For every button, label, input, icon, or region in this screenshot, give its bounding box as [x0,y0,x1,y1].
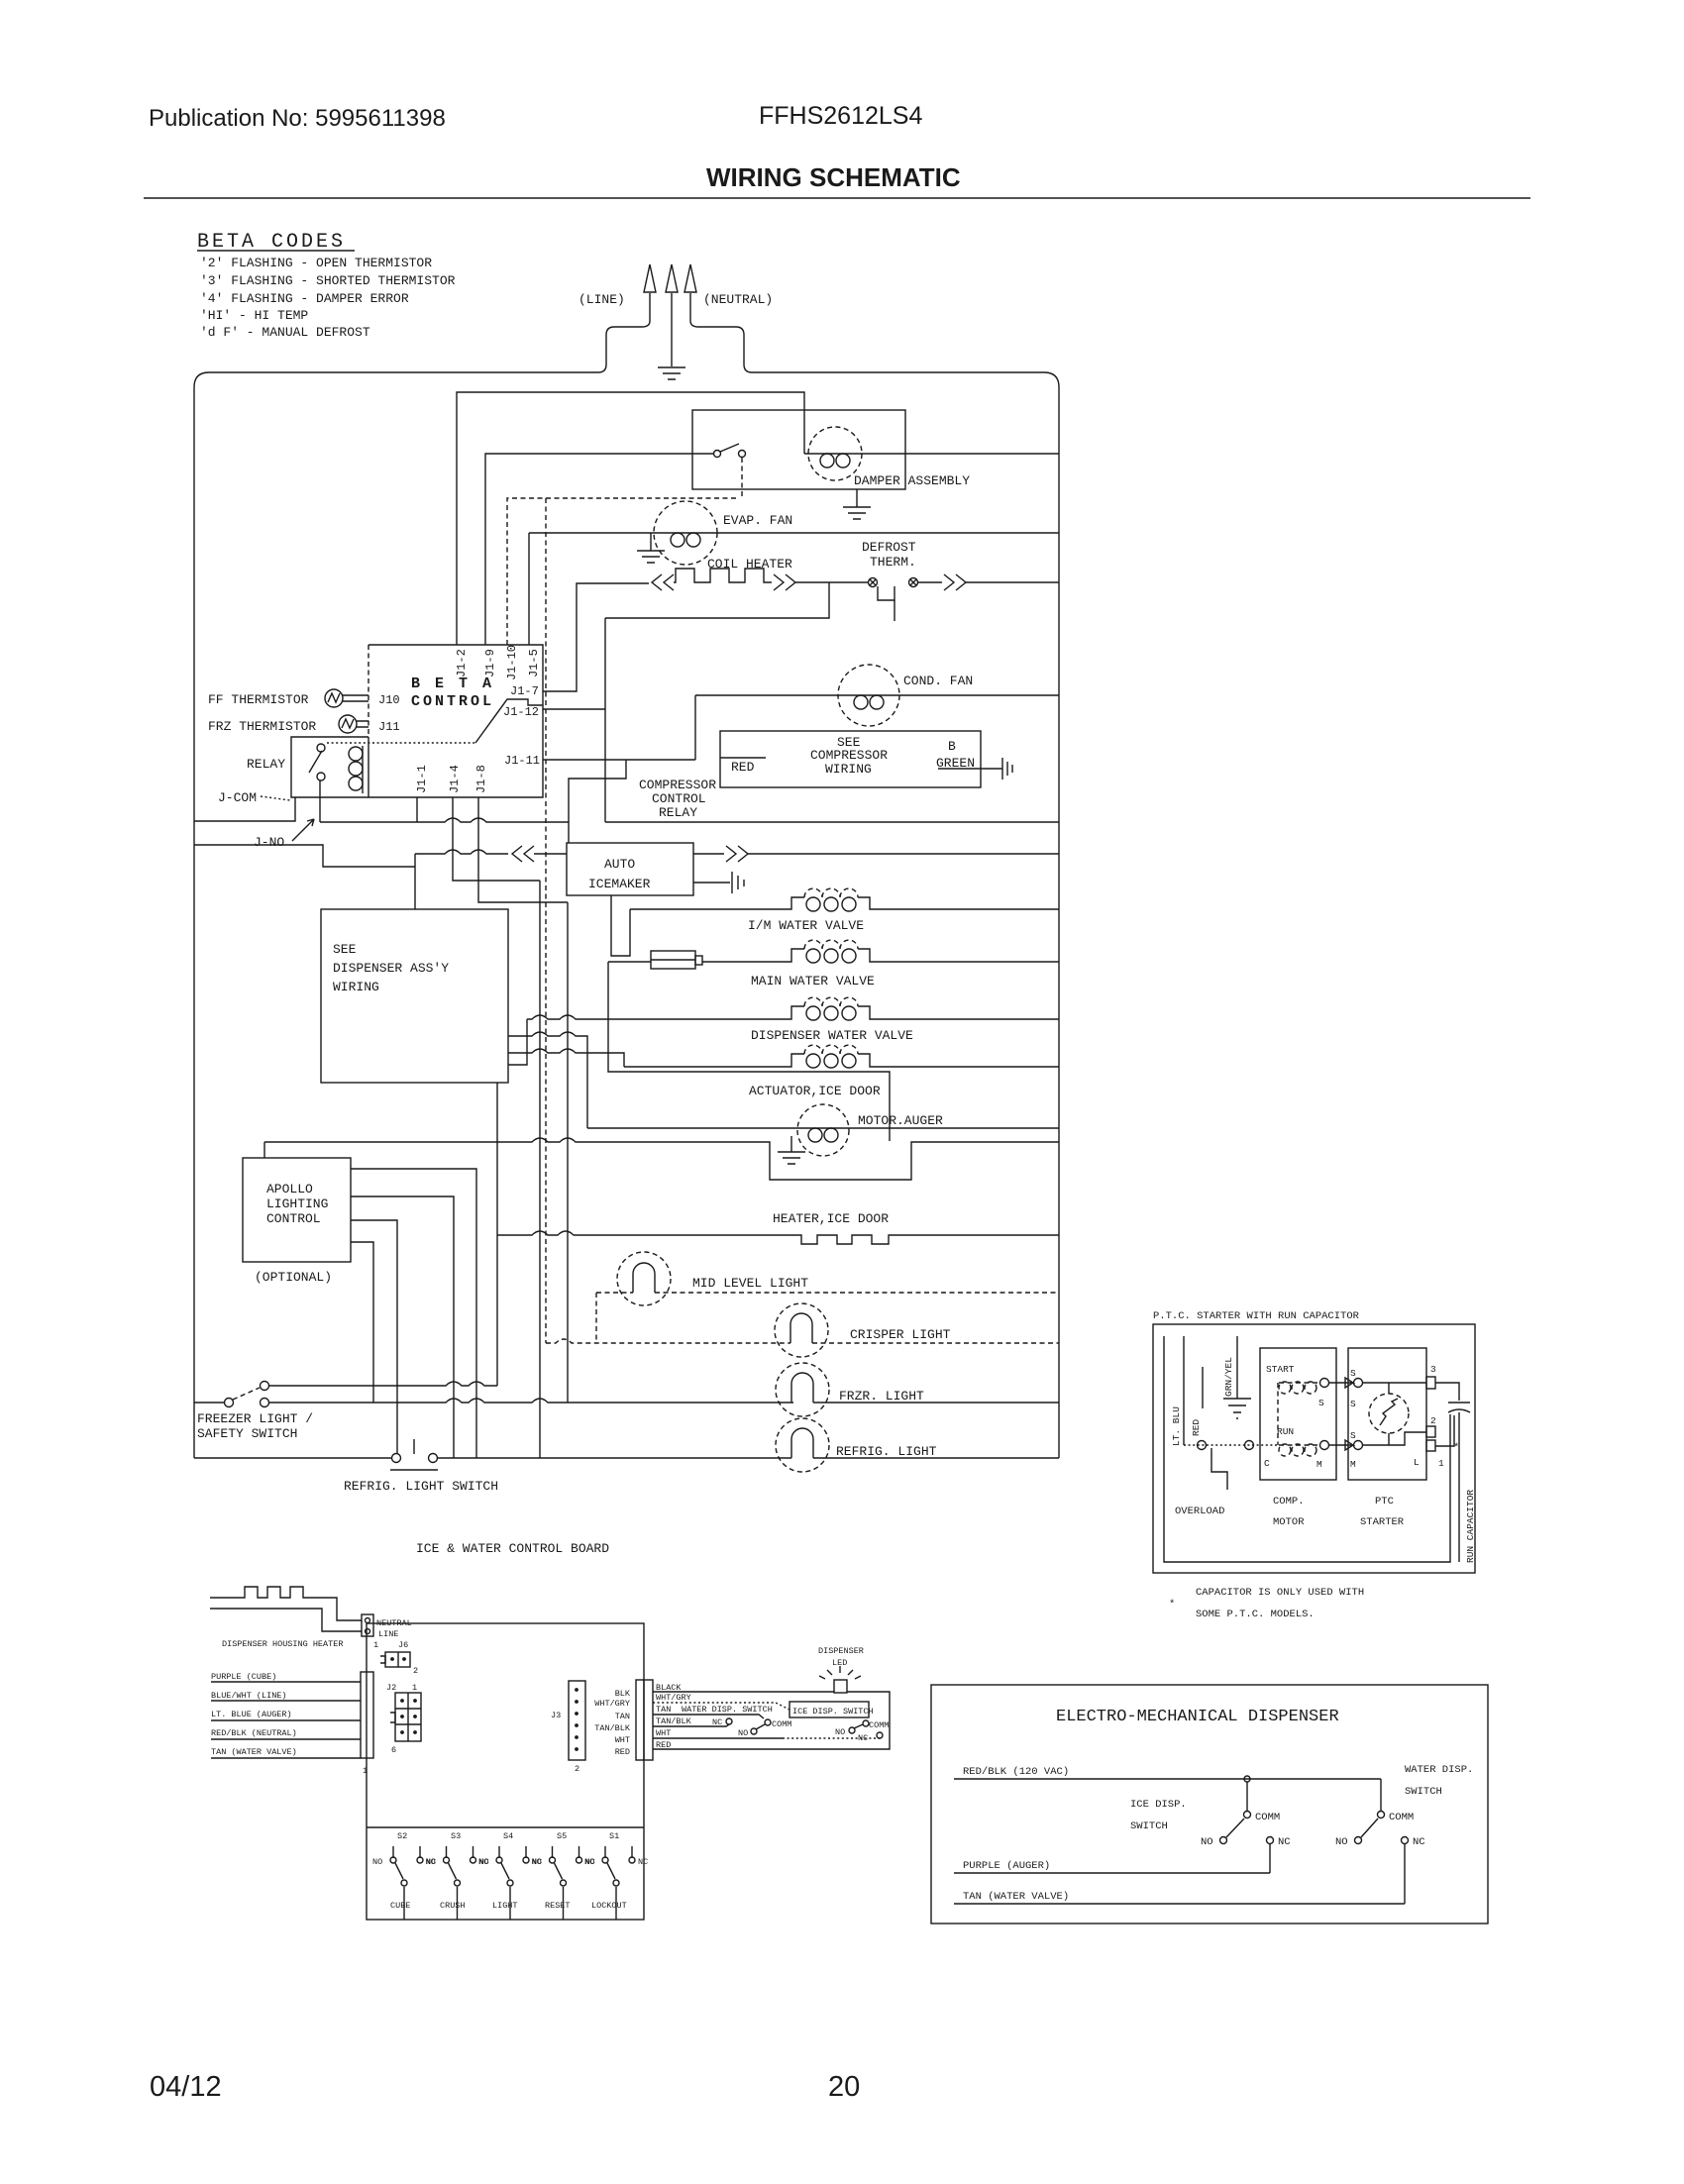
apollo pin 3 wire [351,1220,397,1453]
svg-text:NC: NC [1413,1836,1425,1848]
evap fan circle [654,501,717,565]
svg-text:'HI' - HI TEMP: 'HI' - HI TEMP [200,308,308,323]
svg-text:J1-9: J1-9 [483,649,497,677]
svg-text:1: 1 [373,1640,378,1650]
svg-text:SWITCH: SWITCH [1405,1786,1442,1798]
control board box [367,1623,644,1920]
svg-text:PURPLE (AUGER): PURPLE (AUGER) [963,1860,1050,1872]
svg-text:RUN: RUN [1277,1426,1294,1437]
switch RESET [553,1846,579,1858]
dashed mid level light branch [595,1293,597,1343]
arrows right of coil heater [774,574,795,590]
arrows left of coil heater [652,574,674,590]
svg-text:J1-8: J1-8 [474,765,488,793]
plug prong LINE [598,293,650,372]
svg-text:S: S [1318,1398,1324,1408]
apollo lighting control box [243,1158,351,1262]
arrows right of defrost therm [944,574,966,590]
svg-text:SOME P.T.C. MODELS.: SOME P.T.C. MODELS. [1196,1609,1315,1620]
svg-text:NO: NO [426,1857,436,1867]
svg-text:WHT/GRY: WHT/GRY [656,1693,691,1703]
svg-text:J-COM: J-COM [218,790,257,805]
neutral bus to right edge [605,821,1059,823]
wire freezer upper contact to x502 [269,1382,497,1386]
svg-text:J6: J6 [398,1640,408,1650]
svg-text:LIGHT: LIGHT [492,1901,518,1911]
vertical bus x573 [567,902,569,1403]
vertical from dispenser box to freezer upper wire [496,1083,498,1386]
svg-text:TAN: TAN [615,1712,630,1721]
ground GRN/YEL [1223,1399,1251,1418]
wire RED/BLK [954,1778,1381,1780]
switch CUBE [393,1846,420,1858]
ice disp switch box [789,1702,869,1717]
pin 2 [1426,1426,1435,1437]
svg-text:WHT: WHT [615,1735,630,1745]
svg-text:CONTROL: CONTROL [652,791,706,806]
svg-text:RUN CAPACITOR: RUN CAPACITOR [1465,1490,1476,1563]
PTC starter box [1348,1348,1426,1480]
svg-text:'4' FLASHING - DAMPER ERROR: '4' FLASHING - DAMPER ERROR [200,291,409,306]
svg-text:MOTOR.AUGER: MOTOR.AUGER [858,1113,943,1128]
svg-text:RED/BLK (120 VAC): RED/BLK (120 VAC) [963,1766,1069,1778]
svg-text:CAPACITOR IS ONLY USED WITH: CAPACITOR IS ONLY USED WITH [1196,1587,1364,1599]
svg-text:BLUE/WHT (LINE): BLUE/WHT (LINE) [211,1691,287,1701]
svg-text:PTC: PTC [1375,1496,1394,1508]
icemaker ground stub [693,882,730,884]
svg-text:ACTUATOR,ICE DOOR: ACTUATOR,ICE DOOR [749,1084,881,1098]
svg-text:THERM.: THERM. [870,555,916,570]
svg-text:1: 1 [363,1766,368,1776]
svg-text:NO: NO [584,1857,594,1867]
dispenser LED [834,1680,847,1693]
wire stub [1202,1367,1204,1408]
svg-text:LOCKOUT: LOCKOUT [591,1901,627,1911]
svg-text:WHT/GRY: WHT/GRY [594,1699,630,1709]
vertical bus x545 [539,881,541,1458]
ice disp switch emd [1246,1782,1248,1811]
ground at compressor green [1002,758,1012,780]
svg-text:BLK: BLK [615,1689,631,1699]
svg-text:J1-1: J1-1 [415,765,429,793]
svg-text:NC: NC [638,1857,648,1867]
wire J1-1 stub [416,797,418,822]
svg-text:WHT: WHT [656,1728,671,1738]
svg-text:S4: S4 [503,1831,513,1841]
svg-text:COMPRESSOR: COMPRESSOR [639,778,716,792]
svg-text:WATER DISP.: WATER DISP. [1405,1764,1473,1776]
PTC thermistor [1369,1394,1409,1433]
overload step symbol [1211,1448,1227,1490]
svg-text:Publication No: 5995611398: Publication No: 5995611398 [149,105,446,132]
wire auger return with dip [264,1138,1059,1180]
svg-text:M: M [1316,1459,1322,1470]
svg-text:RED: RED [615,1747,630,1757]
apollo pin 1 wire [351,1169,476,1458]
svg-text:J3: J3 [551,1711,561,1720]
dispenser housing heater [210,1587,362,1620]
comp motor box [1260,1348,1336,1480]
wire icemaker feed [415,850,508,854]
wire RED [1183,1336,1185,1445]
svg-text:RED: RED [656,1740,671,1750]
wire J1-7 to coil heater [543,583,649,691]
svg-text:M: M [1350,1459,1356,1470]
wire GRN/YEL [1236,1336,1238,1399]
wire line-feed from left edge to dispenser box [194,845,415,909]
water disp switch emd [1380,1779,1382,1811]
ground below auger motor [778,1136,805,1164]
svg-text:S: S [1350,1430,1356,1441]
svg-text:NEUTRAL: NEUTRAL [376,1618,412,1628]
ground below evap fan [637,533,665,563]
wire LT. BLU [1164,1336,1450,1562]
wire PURPLE [954,1872,1270,1874]
freezer light safety switch [225,1399,234,1407]
wire I/M water valve line [630,897,804,909]
svg-text:APOLLO: APOLLO [266,1182,313,1196]
neutral line connector [362,1614,373,1636]
svg-text:FREEZER LIGHT /: FREEZER LIGHT / [197,1411,313,1426]
actuator coil [804,1045,858,1054]
svg-text:NO: NO [372,1857,382,1867]
svg-text:J2: J2 [386,1683,396,1693]
svg-text:COND. FAN: COND. FAN [903,674,973,688]
svg-text:WIRING: WIRING [333,980,379,994]
crisper light lamp [775,1303,828,1357]
switch LOCKOUT [605,1846,632,1858]
svg-text:ICEMAKER: ICEMAKER [588,877,651,891]
svg-text:S2: S2 [397,1831,407,1841]
start winding [1279,1382,1291,1394]
switch CRUSH [447,1846,474,1858]
defrost thermostat contacts [869,578,878,587]
svg-text:EVAP. FAN: EVAP. FAN [723,513,792,528]
I/M water valve coil [804,888,858,897]
svg-text:CUBE: CUBE [390,1901,410,1911]
svg-text:S3: S3 [451,1831,461,1841]
svg-text:TAN/BLK: TAN/BLK [594,1723,631,1733]
wire J1-4 bus [453,797,540,881]
wire main water valve feed [608,961,651,963]
svg-text:SAFETY SWITCH: SAFETY SWITCH [197,1426,297,1441]
svg-text:RELAY: RELAY [659,805,697,820]
svg-text:COMM: COMM [1255,1812,1280,1823]
svg-text:*: * [1453,1442,1459,1454]
outer boundary left and top [194,372,598,1458]
svg-text:J1-10: J1-10 [505,645,519,680]
svg-text:1: 1 [1438,1458,1444,1469]
svg-text:I/M WATER VALVE: I/M WATER VALVE [748,918,864,933]
apollo pin 4 wire [351,1242,373,1403]
wire return via 1082 [608,962,890,1141]
svg-text:3: 3 [1430,1364,1436,1375]
svg-text:ICE DISP. SWITCH: ICE DISP. SWITCH [792,1707,874,1716]
dispenser box pin to dispenser water valve [508,1019,527,1065]
auto icemaker box [567,843,693,895]
svg-text:START: START [1266,1364,1295,1375]
wire J1-10 dashed bus [507,498,739,645]
wire J1-5 bus to evap fan line [528,533,530,645]
svg-text:COMM: COMM [772,1719,791,1729]
svg-text:AUTO: AUTO [604,857,635,872]
wire actuator ice door [624,1054,804,1067]
svg-text:MAIN WATER VALVE: MAIN WATER VALVE [751,974,875,988]
svg-text:DISPENSER ASS'Y: DISPENSER ASS'Y [333,961,449,976]
wire heater ice door [497,1231,1059,1244]
svg-text:2: 2 [1430,1415,1436,1426]
damper coil [808,427,862,480]
svg-text:WIRING SCHEMATIC: WIRING SCHEMATIC [706,162,961,192]
see dispenser assy wiring box [321,909,508,1083]
svg-text:TAN: TAN [656,1705,671,1715]
bottom boundary left segment [194,1457,392,1459]
svg-text:COMM: COMM [869,1720,889,1730]
wire RED stub [720,757,766,759]
svg-text:NO: NO [478,1857,488,1867]
svg-text:6: 6 [391,1745,396,1755]
svg-text:RELAY: RELAY [247,757,285,772]
wire J-COM to left edge [194,797,295,821]
svg-text:OVERLOAD: OVERLOAD [1175,1506,1224,1517]
wire J-NO drop [319,780,321,822]
run capacitor [1435,1383,1459,1401]
beta box notch [475,699,543,743]
svg-text:C: C [1264,1458,1270,1469]
svg-text:SEE: SEE [333,942,357,957]
frzr light lamp [776,1363,829,1416]
defrost thermostat jog [878,586,895,600]
svg-text:MID LEVEL LIGHT: MID LEVEL LIGHT [692,1276,808,1291]
ground at plug [658,367,685,379]
electro-mechanical dispenser box [931,1685,1488,1924]
switch LIGHT [499,1846,526,1858]
main water valve coil [804,940,858,949]
svg-text:FRZ THERMISTOR: FRZ THERMISTOR [208,719,316,734]
svg-text:'d F' - MANUAL DEFROST: 'd F' - MANUAL DEFROST [200,325,370,340]
svg-text:NO: NO [1335,1836,1348,1848]
left connector bar [361,1672,373,1758]
svg-text:REFRIG. LIGHT: REFRIG. LIGHT [836,1444,937,1459]
svg-text:GRN/YEL: GRN/YEL [1223,1357,1234,1397]
svg-text:B: B [948,739,956,754]
svg-text:DEFROST: DEFROST [862,540,916,555]
svg-text:L: L [1414,1457,1420,1468]
outer boundary right and top [752,372,1059,1458]
svg-text:NO: NO [835,1727,845,1737]
svg-text:S: S [1350,1368,1356,1379]
svg-text:ELECTRO-MECHANICAL DISPENSER: ELECTRO-MECHANICAL DISPENSER [1056,1708,1339,1726]
svg-text:2: 2 [413,1666,418,1676]
coil heater element [674,569,772,582]
svg-text:STARTER: STARTER [1360,1516,1405,1528]
wire J1-9 bus to damper switch [485,454,713,645]
plug prong center [671,293,673,366]
svg-text:J10: J10 [378,693,400,707]
dispenser box pin to auger motor [508,1032,587,1128]
apollo top wire [263,1142,265,1158]
svg-text:J1-4: J1-4 [448,765,462,793]
svg-text:NC: NC [1278,1836,1291,1848]
wire frzr light line [269,1399,793,1403]
water disp switch [726,1718,732,1724]
svg-text:2: 2 [575,1764,579,1774]
arrows right of icemaker [693,853,724,855]
svg-text:COIL HEATER: COIL HEATER [707,557,792,572]
svg-text:COMPRESSOR: COMPRESSOR [810,748,888,763]
thermal fuse [651,951,695,969]
svg-text:J-NO: J-NO [254,835,284,850]
wire J1-12 to coil heater return [543,708,605,710]
svg-text:PURPLE (CUBE): PURPLE (CUBE) [211,1672,276,1682]
right connector bar [636,1680,653,1760]
svg-text:CONTROL: CONTROL [411,693,494,710]
cond fan circle [838,665,899,726]
svg-text:04/12: 04/12 [150,2071,222,2103]
svg-text:20: 20 [828,2071,860,2103]
mid level light lamp [617,1252,671,1305]
damper switch [714,451,721,458]
overload dashed run wire [1184,1444,1278,1446]
refrig light switch [392,1454,401,1463]
svg-text:COMP.: COMP. [1273,1496,1305,1508]
svg-text:CRISPER LIGHT: CRISPER LIGHT [850,1327,951,1342]
wire J1-1 / line bus to icemaker top [320,818,569,843]
svg-text:RED: RED [731,760,755,775]
svg-text:J1-11: J1-11 [504,754,540,768]
damper assembly box [692,410,905,489]
svg-text:J1-5: J1-5 [527,649,541,677]
svg-text:TAN (WATER VALVE): TAN (WATER VALVE) [211,1747,297,1757]
svg-text:FRZR. LIGHT: FRZR. LIGHT [839,1389,924,1404]
svg-text:NO: NO [532,1857,542,1867]
PTC inset outer box [1153,1324,1475,1573]
svg-text:S5: S5 [557,1831,567,1841]
svg-text:TAN/BLK: TAN/BLK [656,1716,692,1726]
svg-text:J1-7: J1-7 [510,684,539,698]
wire J1-8 bus [478,797,568,902]
wire S to PTC [1329,1378,1353,1388]
run winding [1279,1444,1291,1456]
svg-text:REFRIG. LIGHT SWITCH: REFRIG. LIGHT SWITCH [344,1479,498,1494]
apollo pin 2 wire [351,1196,454,1458]
dispenser water valve coil [804,997,858,1006]
svg-text:'3' FLASHING - SHORTED THERMIS: '3' FLASHING - SHORTED THERMISTOR [200,273,456,288]
wire compressor control relay [569,760,626,822]
svg-text:WIRING: WIRING [825,762,872,777]
svg-text:1: 1 [412,1683,417,1693]
icemaker pin to I/M valve line [611,895,630,956]
svg-text:WATER DISP. SWITCH: WATER DISP. SWITCH [682,1705,773,1715]
svg-text:TAN (WATER VALVE): TAN (WATER VALVE) [963,1891,1069,1903]
auger motor circle [797,1104,849,1156]
svg-text:LIGHTING: LIGHTING [266,1196,328,1211]
BETA CONTROL box [291,645,543,797]
svg-text:FFHS2612LS4: FFHS2612LS4 [759,102,922,130]
board divider [367,1826,644,1828]
arrows icemaker left [512,846,534,862]
ground below damper box [843,489,871,519]
svg-text:LT. BLU: LT. BLU [1171,1406,1182,1446]
svg-text:SWITCH: SWITCH [1130,1820,1168,1832]
svg-text:LINE: LINE [378,1629,398,1639]
wire dispenser water valve [527,1006,804,1019]
svg-text:J1-12: J1-12 [503,705,539,719]
svg-text:S: S [1350,1399,1356,1409]
svg-text:DISPENSER: DISPENSER [818,1646,864,1656]
svg-text:RED/BLK (NEUTRAL): RED/BLK (NEUTRAL) [211,1728,297,1738]
wire TAN [954,1903,1405,1905]
svg-text:B E T A: B E T A [411,676,494,692]
svg-text:RED: RED [1191,1419,1202,1436]
svg-text:CRUSH: CRUSH [440,1901,466,1911]
svg-text:RESET: RESET [545,1901,571,1911]
pin 3 [1426,1377,1435,1389]
svg-text:NO: NO [1201,1836,1213,1848]
wire J1-11 to cond fan [543,759,695,761]
svg-text:J1-2: J1-2 [455,649,469,677]
svg-text:(OPTIONAL): (OPTIONAL) [255,1270,332,1285]
refrig light lamp [776,1418,829,1472]
dispenser box pin to actuator [508,1049,624,1067]
wire J1-2 bus to damper coil [457,392,804,645]
svg-text:*: * [1169,1599,1175,1611]
svg-text:'2' FLASHING - OPEN THERMISTOR: '2' FLASHING - OPEN THERMISTOR [200,256,432,270]
svg-text:LED: LED [832,1658,847,1668]
svg-text:DISPENSER WATER VALVE: DISPENSER WATER VALVE [751,1028,913,1043]
svg-text:S1: S1 [609,1831,619,1841]
svg-text:FF THERMISTOR: FF THERMISTOR [208,692,309,707]
relay contacts [317,744,325,752]
svg-text:DAMPER ASSEMBLY: DAMPER ASSEMBLY [854,473,970,488]
svg-text:(NEUTRAL): (NEUTRAL) [703,292,773,307]
ice disp switch [863,1720,869,1726]
svg-text:HEATER,ICE DOOR: HEATER,ICE DOOR [773,1211,889,1226]
wire dashed bus down to crisper [545,498,547,1343]
svg-text:COMM: COMM [1389,1812,1414,1823]
bottom line through refrig light [437,1457,791,1459]
wire M to PTC [1329,1440,1353,1450]
svg-text:J11: J11 [378,720,400,734]
pin 1 [1426,1440,1435,1451]
svg-text:ICE DISP.: ICE DISP. [1130,1799,1187,1811]
svg-text:ICE & WATER CONTROL BOARD: ICE & WATER CONTROL BOARD [416,1541,609,1556]
svg-text:P.T.C. STARTER WITH RUN CAPACI: P.T.C. STARTER WITH RUN CAPACITOR [1153,1310,1360,1322]
svg-text:(LINE): (LINE) [579,292,625,307]
plug prong NEUTRAL [690,293,752,372]
svg-text:CONTROL: CONTROL [266,1211,321,1226]
svg-text:DISPENSER HOUSING HEATER: DISPENSER HOUSING HEATER [222,1639,343,1649]
compressor wiring box [720,731,981,787]
title rule [144,197,1530,199]
svg-text:MOTOR: MOTOR [1273,1516,1305,1528]
svg-text:LT. BLUE (AUGER): LT. BLUE (AUGER) [211,1710,292,1719]
svg-text:NO: NO [738,1728,748,1738]
